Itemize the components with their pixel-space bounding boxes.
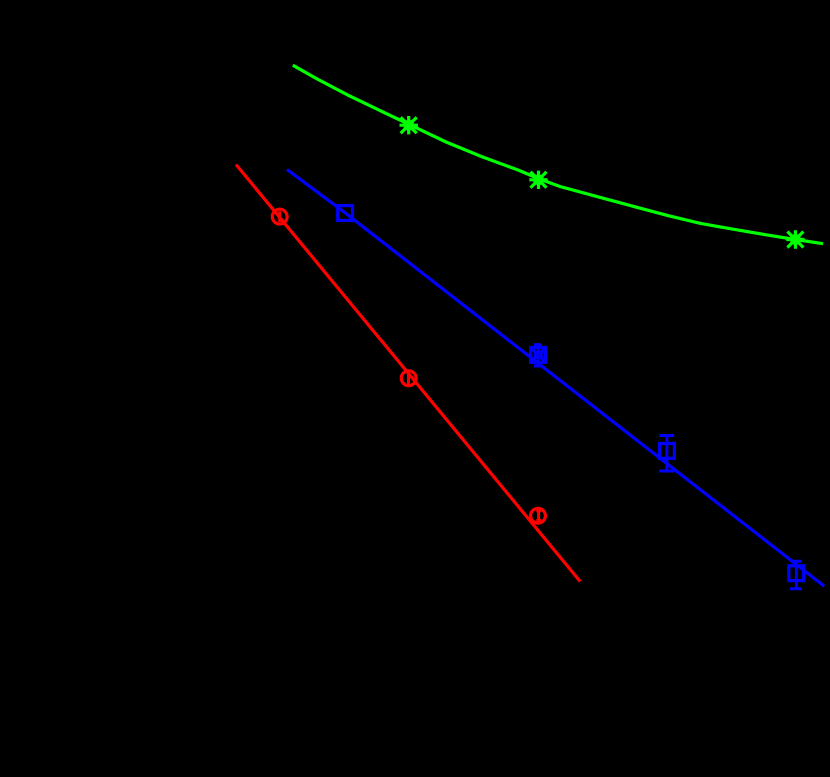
red fit line <box>236 165 580 582</box>
red data marker R2 (open circle) <box>401 371 416 386</box>
blue data marker B4 (open square) <box>789 566 804 581</box>
blue data marker B3 (open square) <box>660 444 675 459</box>
red data marker R3 (open circle) <box>531 508 546 523</box>
green data marker G3 (asterisk) <box>786 230 804 248</box>
red error bar at R1 <box>278 211 281 222</box>
blue fit line <box>287 170 824 587</box>
blue error bar at B3 <box>659 436 674 472</box>
blue data marker B2 (open square with X) <box>531 348 546 363</box>
blue data marker B1 (open square) <box>338 206 353 221</box>
red error bar at R3 <box>536 511 541 521</box>
red error bar at R2 <box>407 373 410 385</box>
blue error bar at B2 <box>534 345 542 367</box>
red data marker R1 (open circle) <box>272 209 287 224</box>
green data marker G1 (asterisk) <box>400 116 418 134</box>
green fit curve <box>293 65 823 244</box>
green data marker G2 (asterisk) <box>529 171 547 189</box>
blue error bar at B4 <box>790 561 802 589</box>
